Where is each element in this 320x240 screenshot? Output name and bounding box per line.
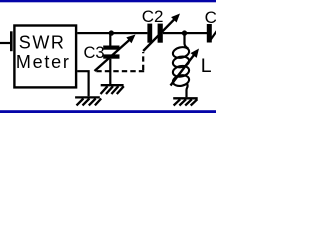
svg-text:SWR: SWR [19, 32, 66, 52]
junction dot node B [182, 30, 187, 35]
L variable arrow [171, 54, 195, 85]
wire junction to L [185, 33, 189, 49]
input connector bar [10, 31, 13, 51]
svg-text:C2: C2 [142, 7, 164, 26]
SWR meter box U1 [14, 26, 76, 88]
wire C2 to C1 [163, 32, 207, 34]
bottom blue border [0, 110, 216, 113]
input wire [0, 42, 10, 44]
output wire to C2 [77, 32, 147, 34]
ground under C3 [101, 85, 124, 94]
capacitor C3 bottom plate [103, 54, 119, 58]
C1 variable arrow stub [209, 30, 218, 42]
top blue border [0, 0, 216, 2]
wire C3 to ground [109, 59, 111, 85]
gang dashed link C3 to C2 [96, 70, 144, 72]
capacitor C2 right plate [158, 24, 163, 43]
C3 variable arrow [95, 39, 131, 71]
capacitor C3 top plate [103, 46, 119, 50]
wire SWR box to ground [77, 71, 88, 96]
inductor L coil [172, 46, 190, 88]
C2 variable arrow [143, 19, 175, 51]
junction dot node A [109, 30, 114, 35]
capacitor C1 plate [207, 24, 212, 43]
wire L to ground [187, 84, 188, 97]
wire C3 branch down [109, 33, 111, 46]
capacitor C2 left plate [147, 24, 152, 43]
svg-text:Meter: Meter [16, 52, 71, 72]
svg-text:C3: C3 [84, 44, 105, 62]
svg-text:C: C [205, 8, 216, 27]
ground under L [173, 98, 198, 105]
svg-text:L: L [201, 55, 212, 77]
ground under SWR box [75, 97, 101, 105]
